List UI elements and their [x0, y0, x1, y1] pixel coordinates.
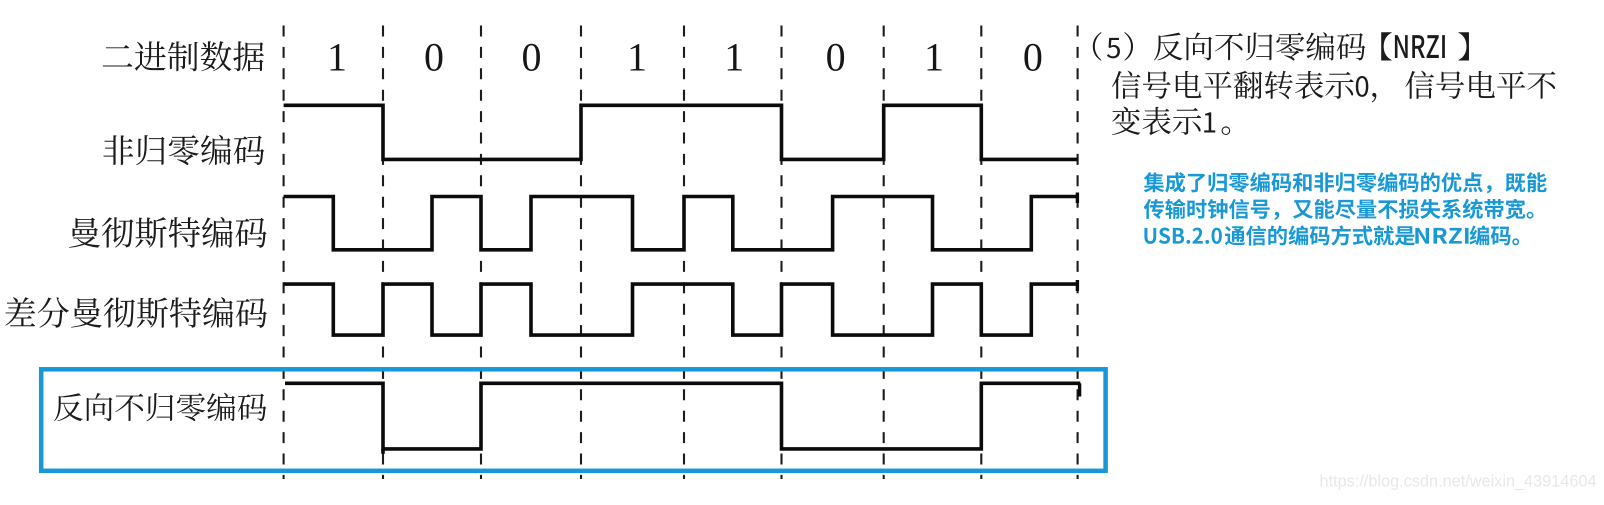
svg-text:https://blog.csdn.net/weixin_4: https://blog.csdn.net/weixin_43914604	[1320, 473, 1597, 491]
heading 5	[1107, 38, 1120, 59]
dashed bit boundary line 8	[980, 26, 982, 480]
blue note 通信的编码方式就是	[1225, 225, 1415, 245]
dashed bit boundary line 1	[283, 26, 285, 480]
NRZ waveform (non-return-to-zero)	[284, 105, 1078, 159]
heading line2 信号电平翻转表示	[1112, 71, 1354, 100]
heading （	[1093, 32, 1102, 61]
dashed bit boundary line 7	[883, 26, 885, 480]
heading 反向不归零编码	[1154, 32, 1365, 60]
blue highlight box around NRZI row	[41, 369, 1105, 471]
binary data digits 1 0 0 1 1 0 1 0	[327, 35, 1043, 80]
heading line2 ，	[1372, 93, 1377, 103]
heading NRZI	[1395, 35, 1445, 58]
svg-text:0: 0	[522, 35, 542, 80]
heading line3 变表示	[1112, 107, 1201, 136]
dashed bit boundary line 9	[1077, 26, 1079, 480]
heading line3 1	[1204, 112, 1215, 132]
svg-text:1: 1	[327, 35, 347, 80]
dashed bit boundary line 5	[683, 26, 685, 480]
row label: NRZ 非归零编码	[103, 135, 264, 165]
heading line2 0	[1356, 76, 1369, 97]
differential Manchester waveform	[284, 284, 1078, 335]
heading ）	[1124, 32, 1133, 61]
NRZI waveform transition tail at x=383	[381, 449, 385, 454]
row label: NRZI 反向不归零编码	[54, 393, 266, 421]
blue note line1	[1144, 172, 1547, 193]
heading 【	[1381, 32, 1391, 60]
blue note line2	[1144, 199, 1534, 220]
dashed bit boundary line 2	[382, 26, 384, 480]
dashed bit boundary line 6	[780, 26, 782, 480]
heading line3 。	[1222, 126, 1231, 135]
dashed bit boundary line 4	[580, 26, 582, 480]
svg-text:0: 0	[424, 35, 444, 80]
blue note USB.2.0	[1144, 228, 1221, 244]
differential Manchester waveform end tick	[1076, 280, 1079, 291]
Manchester waveform end tick	[1076, 193, 1079, 204]
NRZI waveform (inverted non-return-to-zero)	[285, 383, 1080, 449]
NRZI waveform end tick	[1078, 383, 1081, 396]
svg-text:0: 0	[826, 35, 846, 80]
svg-text:1: 1	[924, 35, 944, 80]
heading 】	[1458, 32, 1468, 60]
Manchester waveform	[284, 197, 1078, 250]
svg-text:1: 1	[627, 35, 647, 80]
row label: binary data 二进制数据	[103, 41, 264, 71]
svg-text:0: 0	[1023, 35, 1043, 80]
svg-text:1: 1	[724, 35, 744, 80]
row label: Manchester 曼彻斯特编码	[69, 217, 267, 248]
row label: differential Manchester 差分曼彻斯特编码	[5, 297, 267, 328]
heading line2 信号电平不	[1405, 71, 1555, 99]
blue note NRZI	[1415, 228, 1468, 244]
dashed bit boundary line 3	[480, 26, 482, 480]
blue note 编码。	[1470, 225, 1520, 245]
